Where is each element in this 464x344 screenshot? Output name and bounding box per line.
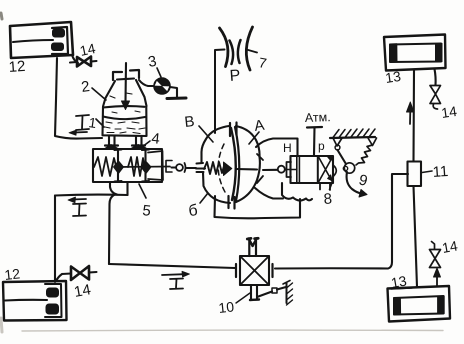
top brackets [113,72,122,80]
dashed membrane position [218,144,225,192]
servo cylinder H with valve section 8 [286,156,333,183]
svg-text:13: 13 [384,68,402,86]
left stub [235,264,237,277]
liquid lens [103,106,145,107]
bleed valve 14 (bottom-right) [430,242,441,287]
svg-text:Н: Н [283,141,292,155]
spool divider right [142,150,149,182]
link to anchor [257,292,272,298]
brake valve 10 [236,238,293,305]
svg-text:Атм.: Атм. [305,110,331,125]
valve 14 (bottom-left) [56,266,97,281]
venturi 7 (carburettor throat) [215,27,257,133]
flow arrow up [407,102,414,124]
pump 3 (circle symbol) [154,78,170,94]
wavy casting bottom [282,183,312,201]
hatched ceiling [330,137,375,138]
main line 11 to bottom 13 [414,186,418,287]
lever arm [338,150,347,164]
wheel cylinder 11 [408,162,422,187]
spool divider left [115,150,122,182]
wire manifold to brake valve 10 [109,264,235,268]
svg-text:14: 14 [73,281,92,301]
rod + spring inside [196,167,205,169]
direction arrow I (upper-left) [69,115,89,135]
svg-text:12: 12 [8,58,26,76]
direction arrow I (mid-left) [68,197,86,216]
right half outline [236,126,260,157]
loop under chamber [215,196,301,218]
spool rod [118,166,170,169]
bottom stem [251,285,257,299]
control valve block 4/5 [93,149,172,182]
direction arrow I (bottom-center) [162,271,190,289]
vacuum chamber 6 (booster) [196,123,263,209]
spring diagonal [356,145,373,165]
right port marks [257,154,263,183]
up arrow into valve [436,274,438,287]
brake chamber 13 (top-right) [384,35,446,71]
spring middle [128,157,145,176]
right pocket brackets [148,151,163,180]
reservoir 12 (top-left) [10,22,73,58]
valve 14 (top-left, shut-off) [70,57,97,67]
top port ticks [230,123,237,137]
svg-text:14: 14 [440,103,458,121]
roller circles [344,163,354,173]
reservoir 12 (bottom-left) [3,281,67,321]
svg-text:12: 12 [4,265,21,283]
wire brake valve 10 to cylinder 11 [275,174,408,269]
top stem with fork [249,240,256,256]
svg-text:4: 4 [151,130,161,148]
rod valve to chamber with ball joint [172,163,197,172]
line chamber top-right to servo [256,139,298,157]
bleed valve 14 (top-right) [430,69,441,109]
lever mechanism 9 [330,129,377,197]
diaphragm double line [231,128,236,200]
pump 3 drain to ground [167,87,186,99]
wire valve block down-left manifold [55,182,128,282]
main line top 13 to 11 [412,70,415,162]
liquid hatch [105,93,145,134]
legs [109,136,115,145]
right stub [271,264,273,277]
top cross bar [117,79,134,80]
diamond right [141,162,151,174]
wire reservoir12 to valve 14 (top-left) [72,55,78,63]
svg-text:р: р [318,139,325,153]
svg-text:б: б [188,202,199,220]
svg-text:В: В [184,113,196,131]
chamber left port brackets [197,162,204,165]
flask 2 (fluid reservoir with float) [103,63,147,149]
svg-text:8: 8 [323,190,333,208]
center stem with arrow [124,63,127,101]
lever lower arm with arrow [347,172,362,194]
rod chamber to servo with ball joint [263,166,285,173]
svg-text:11: 11 [432,163,449,181]
atmosphere vent [307,127,322,155]
left half outline [202,126,230,163]
anchor right [368,138,377,146]
diamond mid [114,161,124,174]
shoulders [103,81,115,107]
spring left [94,157,117,176]
pivot triangle [333,138,342,146]
svg-text:10: 10 [218,298,235,316]
svg-text:5: 5 [142,202,152,220]
hatched anchor [286,283,288,303]
body [103,107,147,137]
line chamber bottom-right [255,188,283,199]
bottom port ticks [229,196,235,209]
svg-text:14: 14 [441,237,459,255]
svg-text:Р: Р [229,67,241,85]
wire reservoir12 down to flask [55,58,102,139]
brake chamber 13 (bottom-right) [388,286,451,322]
wire flask to pump 3 [139,80,154,86]
valve 8 cross with arrows [318,156,336,190]
